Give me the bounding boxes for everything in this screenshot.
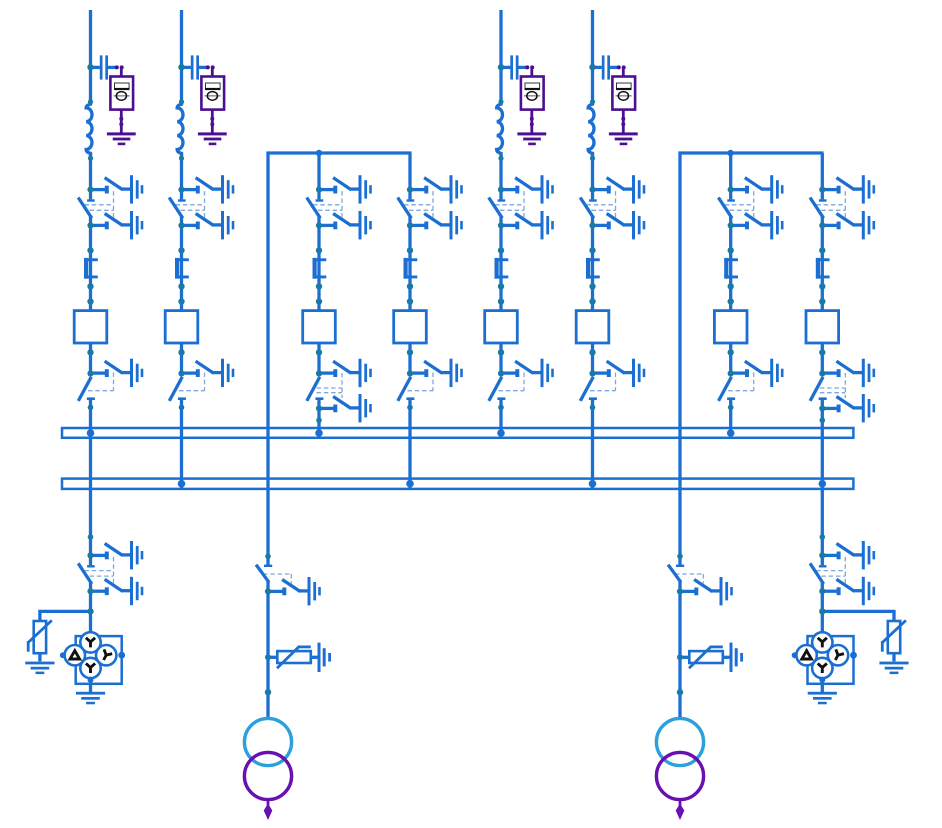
node: bay 4 above CT	[407, 247, 413, 253]
node: bay 8 above CT	[819, 247, 825, 253]
node: bay 2 bus connection	[178, 480, 186, 488]
node: bay 7 bus connection	[727, 429, 735, 437]
disconnector+earth switches: bay 2 line side	[170, 175, 234, 239]
wire: bay 1 segment 1	[89, 10, 92, 105]
disconnector+earth switches: right shunt bay	[811, 541, 875, 605]
wire: right arrester branch	[822, 610, 895, 613]
wire: bay 5 segment 4	[499, 398, 502, 438]
CT: current transformer bay 3	[313, 258, 327, 279]
disconnector+earth switches: bay 1 line side	[79, 175, 143, 239]
disconnector+earth switch: bay 4 bus side	[399, 359, 463, 400]
node: right branch junction	[819, 608, 825, 614]
capacitor: coupling cap bay 5	[501, 55, 546, 145]
node: bay 8 below breaker	[819, 349, 825, 355]
CT: current transformer bay 6	[586, 258, 600, 279]
CT: current transformer bay 4	[404, 258, 418, 279]
node: bay 3 bus connection	[315, 429, 323, 437]
disconnector+earth switches: bay 8 line side	[811, 175, 875, 239]
surge arrester: transformer 1 branch	[265, 643, 331, 672]
disconnector+earth switch: transformer 2	[669, 554, 733, 606]
node: bay 1 above bus	[88, 405, 94, 411]
breaker: circuit breaker bay 5	[485, 311, 518, 343]
node: bay 2 above bus	[179, 405, 185, 411]
wire: bay 2 segment 4	[180, 398, 183, 489]
wire: bay 7 segment 1	[729, 153, 732, 199]
filter bank: left SVC group	[60, 632, 125, 704]
node: transformer 1 above winding	[265, 689, 271, 695]
breaker: circuit breaker bay 2	[165, 311, 198, 343]
disconnector+earth switch: bay 1 bus side	[79, 359, 143, 400]
node: bay 1 capacitor tap	[87, 64, 93, 70]
breaker: circuit breaker bay 1	[74, 311, 107, 343]
filter bank: right SVC group	[792, 632, 857, 704]
transformer T2: two-winding	[656, 718, 703, 820]
wire: bay 6 segment 1	[591, 10, 594, 105]
node: bay 5 below breaker	[498, 349, 504, 355]
wire: bay 7 segment 2	[729, 217, 732, 374]
wire: bay 8 segment 3	[821, 398, 824, 566]
node: bay 4 above bus	[407, 405, 413, 411]
busbar I	[62, 428, 853, 438]
node: transformer 2 above winding	[677, 689, 683, 695]
node: bay 2 below breaker	[178, 349, 184, 355]
wire: bay 5 segment 1	[499, 10, 502, 105]
wire: transformer feeder 2 lower	[678, 581, 681, 719]
inductor: wave trap bay 2	[177, 99, 184, 161]
CT: current transformer bay 1	[84, 258, 98, 279]
node: bay 7 below breaker	[728, 349, 734, 355]
disconnector+earth switches: left shunt bay	[79, 541, 143, 605]
node: tie/bay7 junction	[727, 150, 733, 156]
disconnector+earth switches: bay 6 line side	[581, 175, 645, 239]
wire: top tie bays 7-8	[679, 151, 824, 154]
disconnector+2 earth switches: bay 3 bus side	[308, 359, 372, 423]
node: left branch junction	[87, 608, 93, 614]
wire: right arrester drop	[892, 610, 895, 621]
node: bay 3 above CT	[316, 247, 322, 253]
node: right cluster upper	[820, 534, 826, 540]
node: bay 5 above breaker	[498, 298, 504, 304]
wire: bay 3 segment 1	[317, 153, 320, 199]
wire: bay 6 segment 4	[591, 398, 594, 489]
wire: bay 8 segment 1	[821, 153, 824, 199]
node: bay 1 bus connection	[87, 429, 95, 437]
node: bay 7 below CT	[728, 283, 734, 289]
wire: bay 8 segment 2	[821, 217, 824, 374]
node: left cluster upper	[88, 534, 94, 540]
breaker: circuit breaker bay 7	[714, 311, 747, 343]
disconnector+earth switches: bay 7 line side	[719, 175, 783, 239]
disconnector+earth switch: bay 2 bus side	[170, 359, 234, 400]
surge arrester: right shunt	[879, 620, 908, 674]
node: bay 6 bus connection	[589, 480, 597, 488]
node: bay 6 capacitor tap	[589, 64, 595, 70]
node: bay 2 above breaker	[178, 298, 184, 304]
node: bay 1 above breaker	[87, 298, 93, 304]
disconnector+earth switches: bay 5 line side	[490, 175, 554, 239]
wire: left arrester branch	[38, 610, 90, 613]
CT: current transformer bay 5	[495, 258, 509, 279]
wire: bay 1 segment 3	[89, 217, 92, 374]
node: bay 6 below breaker	[589, 349, 595, 355]
node: bay 3 above breaker	[316, 298, 322, 304]
CT: current transformer bay 2	[175, 258, 189, 279]
wire: top tie bays 3-4	[267, 151, 412, 154]
capacitor: coupling cap bay 1	[91, 55, 136, 145]
capacitor: coupling cap bay 2	[182, 55, 227, 145]
node: bay 2 below CT	[178, 283, 184, 289]
wire: bay 4 segment 1	[408, 153, 411, 199]
wire: bay 3 segment 3	[317, 398, 320, 438]
wire: bay 5 segment 3	[499, 217, 502, 374]
breaker: circuit breaker bay 6	[576, 311, 609, 343]
disconnector+earth switch: bay 5 bus side	[490, 359, 554, 400]
wire: bay 2 segment 3	[180, 217, 183, 374]
node: bay 8 below CT	[819, 283, 825, 289]
wire: bay 4 segment 3	[408, 398, 411, 489]
disconnector+earth switch: bay 6 bus side	[581, 359, 645, 400]
inductor: wave trap bay 5	[497, 99, 504, 161]
node: bay 4 below breaker	[407, 349, 413, 355]
wire: bay 6 segment 2	[591, 153, 594, 199]
node: bay 7 above breaker	[728, 298, 734, 304]
node: bay 4 bus connection	[406, 480, 414, 488]
wire: bay 7 segment 3	[729, 398, 732, 438]
node: bay 6 above breaker	[589, 298, 595, 304]
node: bay 4 above breaker	[407, 298, 413, 304]
node: bay 3 below CT	[316, 283, 322, 289]
wire: bay 2 segment 1	[180, 10, 183, 105]
wire: bay 4 segment 2	[408, 217, 411, 374]
node: bay 2 above CT	[178, 247, 184, 253]
node: tie/bay3 junction	[316, 150, 322, 156]
transformer T1: two-winding	[244, 718, 291, 820]
node: bay 1 below CT	[87, 283, 93, 289]
wire: transformer feeder 1 lower	[266, 581, 269, 719]
node: bay 7 above CT	[728, 247, 734, 253]
wire: bay 8 segment 4	[821, 582, 824, 633]
wire: bay 1 segment 4	[89, 398, 92, 566]
wire: bay 3 segment 2	[317, 217, 320, 374]
wire: bay 2 segment 2	[180, 153, 183, 199]
disconnector+earth switches: bay 3 line side	[308, 175, 372, 239]
CT: current transformer bay 7	[724, 258, 738, 279]
disconnector+earth switch: bay 7 bus side	[719, 359, 783, 400]
wire: bay 1 segment 5	[89, 582, 92, 633]
wire: bay 1 segment 2	[89, 153, 92, 199]
node: bay 6 below CT	[589, 283, 595, 289]
node: bay 4 below CT	[407, 283, 413, 289]
node: bay 7 above bus	[728, 405, 734, 411]
surge arrester: left shunt	[25, 620, 54, 674]
wire: transformer feeder 2 upper	[678, 152, 681, 566]
node: bay 5 bus connection	[497, 429, 505, 437]
wire: left arrester drop	[38, 610, 41, 621]
wire: bay 5 segment 2	[499, 153, 502, 199]
node: bay 8 bus connection	[819, 480, 827, 488]
CT: current transformer bay 8	[816, 258, 830, 279]
node: bay 5 capacitor tap	[498, 64, 504, 70]
node: bay 6 above bus	[590, 405, 596, 411]
breaker: circuit breaker bay 4	[394, 311, 427, 343]
wire: transformer feeder 1 upper	[266, 152, 269, 566]
node: bay 8 above breaker	[819, 298, 825, 304]
disconnector+earth switch: transformer 1	[257, 554, 321, 606]
surge arrester: transformer 2 branch	[677, 643, 743, 672]
node: bay 2 capacitor tap	[178, 64, 184, 70]
disconnector+earth switches: bay 4 line side	[399, 175, 463, 239]
breaker: circuit breaker bay 3	[303, 311, 336, 343]
node: bay 5 above bus	[498, 405, 504, 411]
inductor: wave trap bay 1	[86, 99, 93, 161]
busbar II	[62, 479, 853, 489]
wire: bay 6 segment 3	[591, 217, 594, 374]
node: bay 1 below breaker	[87, 349, 93, 355]
node: bay 6 above CT	[589, 247, 595, 253]
node: bay 3 below breaker	[316, 349, 322, 355]
inductor: wave trap bay 6	[588, 99, 595, 161]
node: bay 5 above CT	[498, 247, 504, 253]
node: bay 1 above CT	[87, 247, 93, 253]
node: bay 5 below CT	[498, 283, 504, 289]
capacitor: coupling cap bay 6	[593, 55, 638, 145]
breaker: circuit breaker bay 8	[806, 311, 839, 343]
disconnector+2 earth switches: bay 8 bus side	[811, 359, 875, 423]
